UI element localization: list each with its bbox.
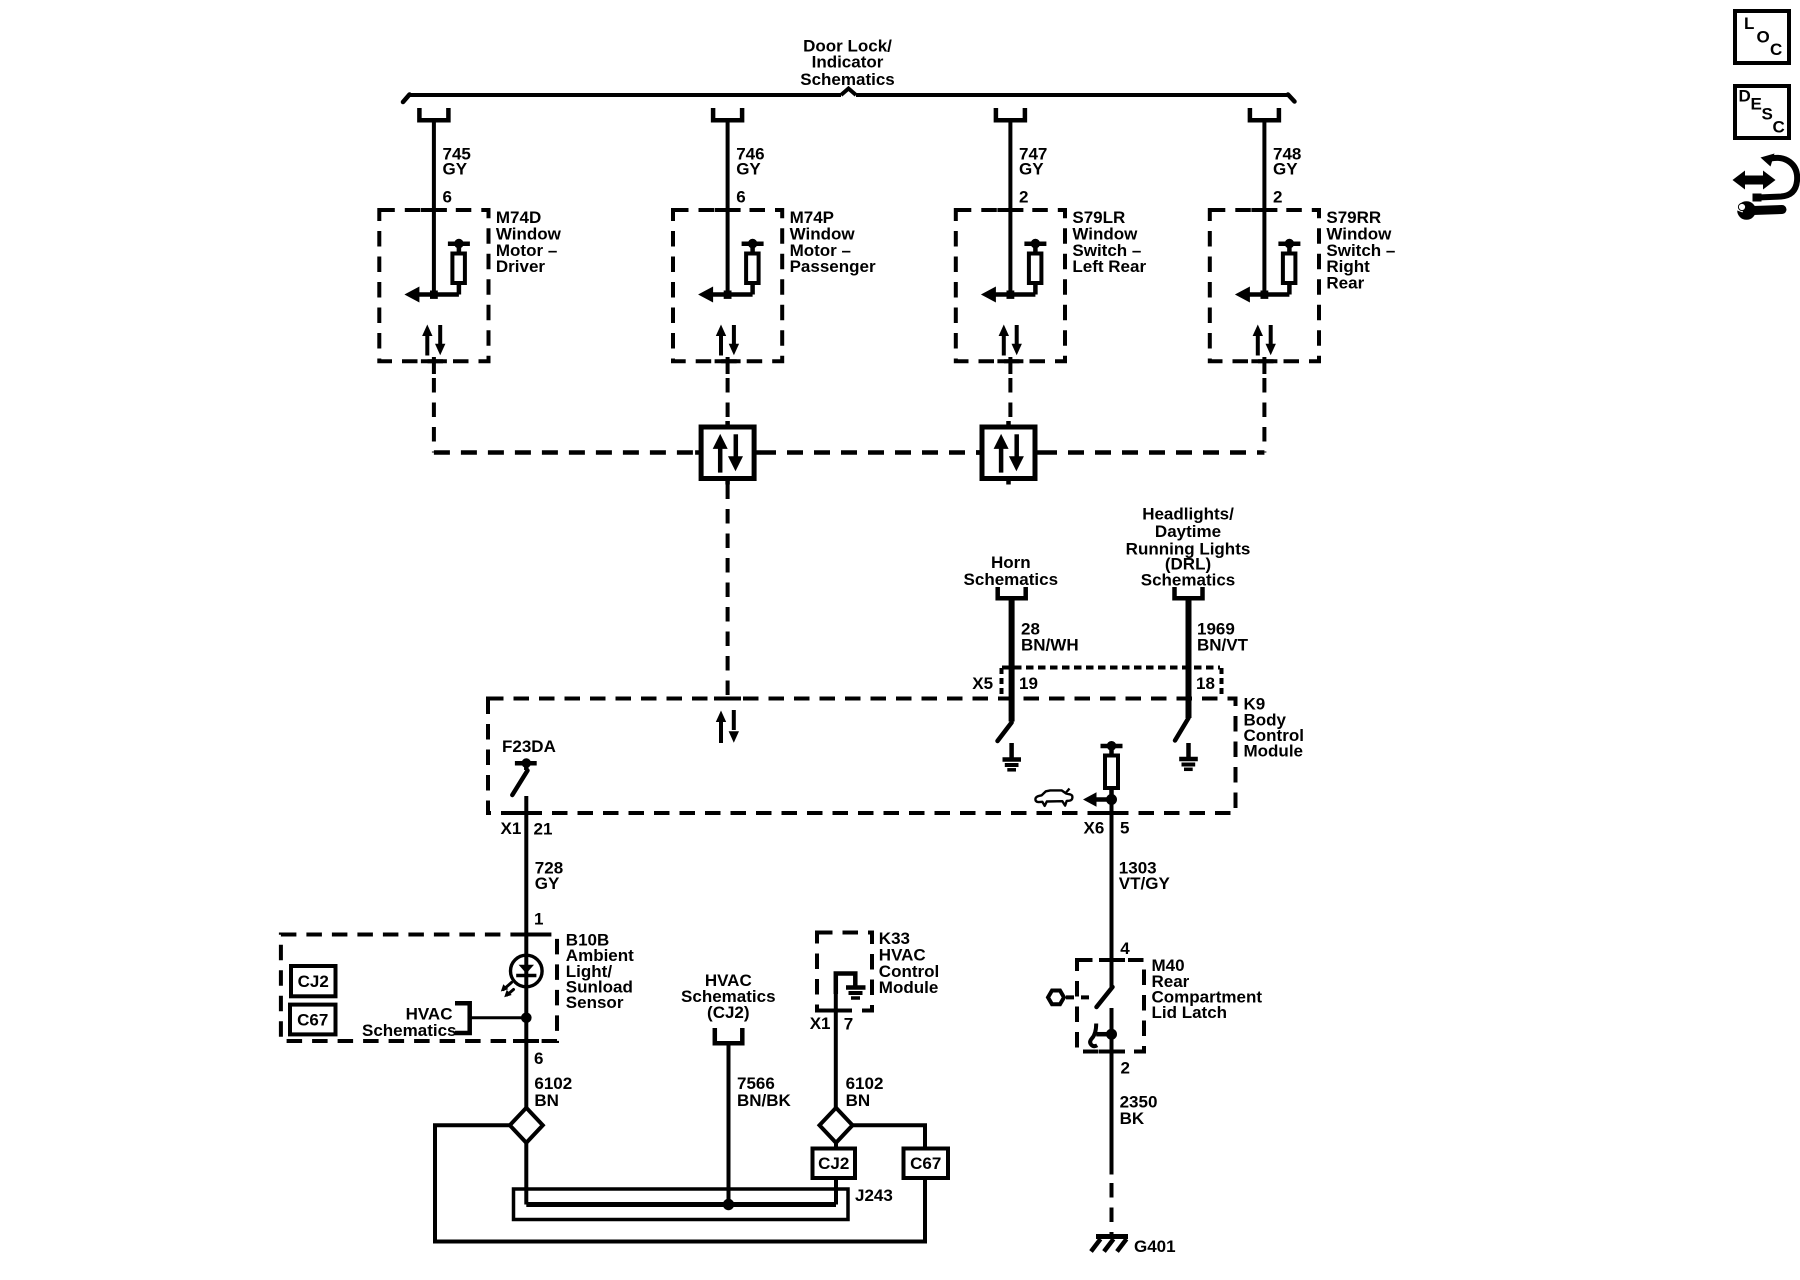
svg-text:VT/GY: VT/GY <box>1119 874 1171 893</box>
label 748 GY <box>1273 144 1301 178</box>
wire stub below M74D box <box>432 357 436 374</box>
motor/switch element of M74D <box>448 239 470 294</box>
arrow to left inside S79LR <box>981 287 1036 303</box>
header: Door Lock/Indicator Schematics <box>800 37 895 89</box>
CJ2 reference box (bottom) <box>813 1149 856 1179</box>
J243 internal bus bar <box>526 1202 836 1207</box>
svg-text:Module: Module <box>879 978 939 997</box>
splice diamond (6102 BN right) <box>820 1108 853 1143</box>
svg-text:X5: X5 <box>972 674 993 693</box>
HVAC Schematics label (left) <box>362 1005 457 1040</box>
svg-text:Daytime: Daytime <box>1155 522 1221 541</box>
fuse F23DA element <box>512 759 536 795</box>
svg-text:G401: G401 <box>1134 1237 1176 1256</box>
svg-text:6: 6 <box>443 188 452 207</box>
label 728 GY <box>535 859 563 894</box>
svg-text:Rear: Rear <box>1326 274 1364 293</box>
dashed wire: S79LR drop to U/D box 2 <box>1008 378 1012 427</box>
internal ground inside K33 <box>836 974 866 999</box>
svg-text:E: E <box>1751 94 1762 113</box>
header bracket <box>403 89 1295 103</box>
DESC hotlink box <box>1735 86 1789 138</box>
K33 label <box>879 929 939 997</box>
K9 Body Control Module label <box>1244 695 1304 761</box>
component dashed box M74D <box>379 210 488 361</box>
svg-text:6: 6 <box>534 1049 543 1068</box>
latch switch blade <box>1097 987 1113 1007</box>
svg-text:BN: BN <box>846 1091 871 1110</box>
svg-text:Module: Module <box>1244 742 1304 761</box>
label 6102 BN (left) <box>534 1074 572 1110</box>
latch striker symbol <box>1090 1024 1116 1047</box>
up/down arrows inside K9 at bus entry <box>716 710 739 743</box>
switch inside K9 on DRL output (pin 18) <box>1175 718 1189 741</box>
svg-text:O: O <box>1757 28 1770 47</box>
dashed wire: S79RR drop to bus <box>1262 378 1266 453</box>
svg-text:Sensor: Sensor <box>566 993 624 1012</box>
label S79LR <box>1072 208 1146 276</box>
label 1303 VT/GY <box>1119 859 1171 894</box>
svg-text:CJ2: CJ2 <box>298 972 329 991</box>
arrows and wrench icon <box>1732 154 1797 220</box>
wire loop: left splice to bottom rail <box>435 1125 925 1241</box>
label S79RR <box>1326 208 1395 293</box>
arrow to left inside M74P <box>698 287 753 303</box>
wire pin 21 down through K9 edge <box>524 796 528 935</box>
ground symbol inside K9 (DRL driver) <box>1179 743 1198 769</box>
svg-text:GY: GY <box>443 160 468 179</box>
connector to Door Lock/Indicator Schematics (M74P branch) <box>713 108 742 120</box>
svg-text:S: S <box>1762 104 1773 123</box>
Horn Schematics label <box>964 553 1059 589</box>
connector to HVAC Schematics (CJ2) <box>715 1028 743 1043</box>
svg-text:C: C <box>1770 40 1782 59</box>
wire stub below M74P box <box>726 357 730 374</box>
svg-text:C67: C67 <box>910 1154 941 1173</box>
wire pin 6 down to splice <box>524 1041 528 1108</box>
svg-text:1: 1 <box>534 909 543 928</box>
wire circuit 748 GY <box>1262 123 1266 295</box>
component dashed box S79RR <box>1210 210 1319 361</box>
label 6102 BN (right) <box>846 1074 884 1110</box>
label M74P <box>790 208 876 276</box>
svg-text:2: 2 <box>1121 1058 1130 1077</box>
svg-text:BN/BK: BN/BK <box>737 1091 792 1110</box>
svg-text:F23DA: F23DA <box>502 737 556 756</box>
svg-text:C: C <box>1773 117 1785 136</box>
label 745 GY <box>443 144 471 178</box>
up/down arrows inside M74D <box>422 325 445 356</box>
svg-text:X1: X1 <box>501 819 522 838</box>
svg-text:(CJ2): (CJ2) <box>707 1003 750 1022</box>
photodiode sensor element <box>501 935 542 1042</box>
svg-text:Schematics: Schematics <box>362 1021 457 1040</box>
B10B label <box>566 930 634 1012</box>
label 747 GY <box>1019 144 1047 178</box>
label 746 GY <box>736 144 764 178</box>
svg-text:Headlights/: Headlights/ <box>1142 504 1234 523</box>
svg-text:BN: BN <box>534 1091 559 1110</box>
label 1969 BN/VT <box>1197 619 1249 654</box>
ground symbol inside K9 (horn driver) <box>1003 743 1022 770</box>
dashed bus middle segment <box>760 450 982 455</box>
svg-text:X1: X1 <box>810 1014 831 1033</box>
svg-text:Schematics: Schematics <box>964 570 1059 589</box>
junction + arrow to car icon <box>1083 792 1117 806</box>
wire circuit 746 GY <box>726 123 730 295</box>
wire from bracket to sensor circuit <box>470 1016 527 1019</box>
svg-text:21: 21 <box>534 819 553 838</box>
ground G401 symbol <box>1091 1237 1128 1252</box>
motor/switch element of S79RR <box>1278 239 1300 294</box>
connector to Headlights/DRL Schematics <box>1175 587 1203 598</box>
svg-text:Schematics: Schematics <box>800 70 895 89</box>
svg-text:19: 19 <box>1019 674 1038 693</box>
svg-text:Schematics: Schematics <box>1141 571 1236 590</box>
HVAC schematics take-off bracket <box>455 1003 470 1033</box>
arrow to left inside S79RR <box>1235 287 1290 303</box>
svg-text:4: 4 <box>1120 939 1130 958</box>
connector to Horn Schematics <box>998 587 1026 598</box>
svg-text:Driver: Driver <box>496 257 546 276</box>
wire from fuse down through X6 <box>1110 800 1114 961</box>
K33 HVAC Control Module dashed box <box>817 933 872 1011</box>
C67 reference box (bottom) <box>904 1149 949 1179</box>
svg-text:2: 2 <box>1019 188 1028 207</box>
component dashed box S79LR <box>956 210 1065 361</box>
dashed wire to G401 <box>1110 1183 1114 1234</box>
up/down arrows inside S79LR <box>999 325 1022 356</box>
svg-text:D: D <box>1739 86 1751 105</box>
wire circuit 28 BN/WH <box>1009 601 1015 722</box>
dashed bus left segment <box>434 450 695 455</box>
svg-text:GY: GY <box>736 160 761 179</box>
dashed mechanical link <box>1066 995 1094 999</box>
svg-text:GY: GY <box>535 874 560 893</box>
LOC hotlink box <box>1735 11 1789 63</box>
motor/switch element of M74P <box>742 239 764 294</box>
svg-text:Left Rear: Left Rear <box>1072 257 1146 276</box>
motor/switch element of S79LR <box>1024 239 1046 294</box>
label 2350 BK <box>1120 1093 1158 1128</box>
dashed wire: M74P drop to U/D box 1 <box>726 378 730 427</box>
svg-text:5: 5 <box>1120 819 1129 838</box>
M40 Rear Compartment Lid Latch dashed box <box>1077 960 1144 1052</box>
svg-text:J243: J243 <box>855 1186 893 1205</box>
wire pin 7 down to splice <box>834 994 838 1108</box>
wire circuit 1969 BN/VT <box>1186 601 1192 719</box>
splice diamond (6102 BN left) <box>510 1108 543 1143</box>
label M74D <box>496 208 562 276</box>
up/down window movement box 2 <box>976 421 1041 485</box>
svg-text:2: 2 <box>1273 188 1282 207</box>
wire circuit 747 GY <box>1008 123 1012 295</box>
svg-text:6: 6 <box>736 188 745 207</box>
CJ2 reference box (left) <box>291 966 336 996</box>
label 28 BN/WH <box>1021 619 1079 654</box>
hex bolt (mechanical) <box>1048 991 1064 1005</box>
wire circuit 7566 BN/BK <box>727 1046 731 1205</box>
svg-text:Lid Latch: Lid Latch <box>1152 1003 1228 1022</box>
connector X5 dotted line <box>1002 668 1222 695</box>
wire circuit 745 GY <box>432 123 436 295</box>
svg-text:BN/WH: BN/WH <box>1021 636 1079 655</box>
svg-text:Passenger: Passenger <box>790 257 876 276</box>
wire stub below S79LR box <box>1008 357 1012 374</box>
svg-text:BN/VT: BN/VT <box>1197 636 1249 655</box>
svg-text:CJ2: CJ2 <box>818 1154 849 1173</box>
arrow to left inside M74D <box>404 287 459 303</box>
svg-text:GY: GY <box>1019 160 1044 179</box>
component dashed box M74P <box>673 210 782 361</box>
svg-text:X6: X6 <box>1084 818 1105 837</box>
svg-text:L: L <box>1744 14 1754 33</box>
svg-text:BK: BK <box>1120 1109 1145 1128</box>
dashed wire: M74D drop to bus <box>432 378 436 453</box>
car icon (vehicle power) <box>1035 789 1072 806</box>
svg-text:Indicator: Indicator <box>812 52 884 71</box>
up/down arrows inside S79RR <box>1253 325 1276 356</box>
dashed bus right segment <box>1041 450 1264 455</box>
junction dot <box>522 1013 532 1023</box>
M40 label <box>1152 956 1263 1022</box>
svg-text:7: 7 <box>844 1014 853 1033</box>
J243 splice pack box <box>514 1189 849 1220</box>
connector to Door Lock/Indicator Schematics (S79RR branch) <box>1250 108 1279 120</box>
junction dot 7566 at J243 <box>723 1199 733 1209</box>
connector to Door Lock/Indicator Schematics (S79LR branch) <box>996 108 1025 120</box>
svg-text:C67: C67 <box>297 1010 328 1029</box>
Headlights/DRL Schematics label <box>1126 504 1251 589</box>
svg-text:18: 18 <box>1196 674 1215 693</box>
K9 Body Control Module dashed box <box>488 699 1236 814</box>
svg-text:GY: GY <box>1273 160 1298 179</box>
fuse element inside K9 (rear lid latch feed) <box>1101 742 1123 798</box>
up/down arrows inside M74P <box>716 325 739 356</box>
wire inside M40 lower section <box>1110 1008 1114 1052</box>
C67 reference box (left) <box>290 1005 336 1035</box>
up/down window movement box 1 <box>695 421 760 485</box>
wire: right splice down through CJ2 to J243 <box>834 1143 838 1205</box>
label 7566 BN/BK <box>737 1074 792 1110</box>
connector to Door Lock/Indicator Schematics (M74D branch) <box>419 108 448 120</box>
switch inside K9 on horn output (pin 19) <box>998 723 1012 742</box>
wire: left splice down to J243 <box>524 1143 528 1205</box>
B10B Ambient Light/Sunload Sensor dashed box <box>281 935 557 1042</box>
wire circuit 2350 BK <box>1110 1052 1114 1175</box>
HVAC Schematics (CJ2) label <box>681 971 776 1022</box>
wire inside M40 upper section <box>1110 960 1114 987</box>
wire stub below S79RR box <box>1262 357 1266 374</box>
dashed wire: U/D box 1 down to K9 Body Control Module <box>726 485 730 699</box>
